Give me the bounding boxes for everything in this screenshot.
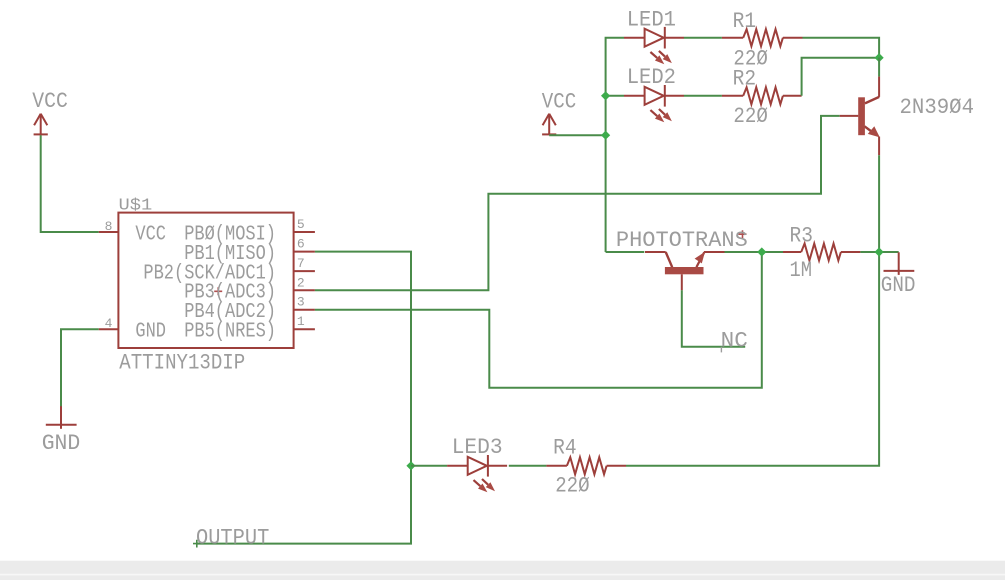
wire R3 to ground tap: [860, 251, 898, 253]
wire pin 6 to OUTPUT: [196, 252, 411, 544]
phototransistor T1: [645, 252, 725, 290]
svg-text:2N39Ø4: 2N39Ø4: [900, 94, 975, 120]
ground symbol GND (right): [884, 252, 915, 275]
svg-text:LED2: LED2: [627, 64, 676, 90]
IC pin 6 stub: [294, 251, 315, 253]
svg-text:VCC: VCC: [135, 223, 166, 246]
wire LED2 to R2: [684, 95, 722, 97]
wire emitter to LED3 rail: [626, 155, 879, 466]
resistor R3: [783, 244, 860, 261]
svg-text:U$1: U$1: [119, 197, 153, 216]
svg-text:ATTINY13DIP: ATTINY13DIP: [119, 350, 245, 375]
svg-text:VCC: VCC: [542, 88, 577, 114]
transistor emitter arrow head: [868, 126, 880, 137]
junction VCC tap: [601, 131, 610, 140]
svg-text:7: 7: [297, 256, 305, 271]
IC pin 2 stub: [294, 289, 315, 291]
phototransistor emitter arrow head: [695, 252, 705, 264]
svg-text:6: 6: [297, 237, 305, 252]
wire LED3 node to LED3: [411, 465, 447, 467]
label NC origin tick: [720, 347, 722, 353]
junction sense node: [757, 247, 766, 256]
wire phototrans collector to LED rail: [606, 251, 645, 253]
IC origin cross: [214, 287, 222, 295]
svg-text:NC: NC: [721, 328, 748, 354]
svg-text:GND: GND: [135, 321, 166, 344]
svg-text:GND: GND: [42, 430, 81, 456]
svg-text:PB5(NRES): PB5(NRES): [184, 321, 276, 344]
svg-text:22Ø: 22Ø: [733, 103, 768, 129]
svg-text:R1: R1: [733, 8, 757, 34]
wire collector node down: [878, 58, 880, 77]
transistor Q1 2N3904: [840, 77, 880, 156]
IC pin 1 stub: [294, 328, 315, 330]
IC pin 3 stub: [294, 309, 315, 311]
svg-text:LED1: LED1: [627, 7, 676, 33]
junction emitter rail crossing: [875, 247, 884, 256]
IC pin 7 stub: [294, 270, 315, 272]
diode LED2: [624, 85, 684, 122]
wire VCC left to pin 8: [41, 135, 99, 232]
wire VCC middle to LED rail: [549, 134, 605, 136]
canvas bottom panel: [0, 561, 1005, 580]
diode LED1: [624, 27, 684, 64]
svg-text:8: 8: [105, 219, 113, 234]
resistor R2: [722, 87, 802, 104]
junction collector node: [875, 53, 884, 62]
ground symbol GND (left): [46, 406, 77, 429]
wire R2 riser to collector node: [802, 58, 880, 96]
junction LED2 branch: [601, 91, 610, 100]
wire pin 3 to sense node: [315, 252, 762, 388]
svg-text:3: 3: [297, 295, 305, 310]
phototransistor origin cross: [739, 230, 747, 238]
diode LED3: [447, 455, 507, 492]
supply symbol VCC (middle): [542, 114, 556, 135]
wire LED rail vertical: [606, 38, 624, 252]
svg-text:VCC: VCC: [32, 88, 68, 114]
supply symbol VCC (left): [34, 114, 48, 135]
IC pin 4 stub: [99, 328, 119, 330]
junction LED3 node: [406, 461, 415, 470]
svg-text:R3: R3: [790, 222, 814, 248]
wire pin 2 to transistor base: [315, 116, 840, 290]
svg-text:PHOTOTRANS: PHOTOTRANS: [616, 227, 748, 253]
wire phototrans base to NC: [682, 290, 745, 346]
label OUTPUT origin cross: [193, 540, 201, 548]
svg-text:2: 2: [297, 275, 305, 290]
resistor R1: [722, 29, 803, 46]
wire LED1 to R1: [684, 37, 722, 39]
wire LED3 to R4: [509, 465, 547, 467]
svg-text:1: 1: [297, 314, 305, 329]
wire R1 to collector node: [803, 38, 880, 58]
svg-text:5: 5: [297, 217, 305, 232]
resistor R4: [546, 457, 626, 474]
IC pin 5 stub: [294, 231, 315, 233]
svg-text:R4: R4: [553, 434, 577, 460]
IC U$1 body: [118, 213, 293, 348]
svg-text:4: 4: [105, 316, 113, 331]
wire pin 4 to ground: [61, 329, 99, 408]
wire phototrans emitter to sense node: [725, 251, 784, 253]
IC pin 8 stub: [99, 231, 119, 233]
svg-text:LED3: LED3: [452, 434, 503, 460]
svg-text:GND: GND: [881, 272, 916, 298]
wire LED2 branch: [606, 95, 624, 97]
svg-text:22Ø: 22Ø: [555, 473, 590, 499]
svg-text:1M: 1M: [790, 257, 813, 283]
svg-text:OUTPUT: OUTPUT: [196, 524, 269, 550]
svg-text:R2: R2: [733, 66, 757, 92]
